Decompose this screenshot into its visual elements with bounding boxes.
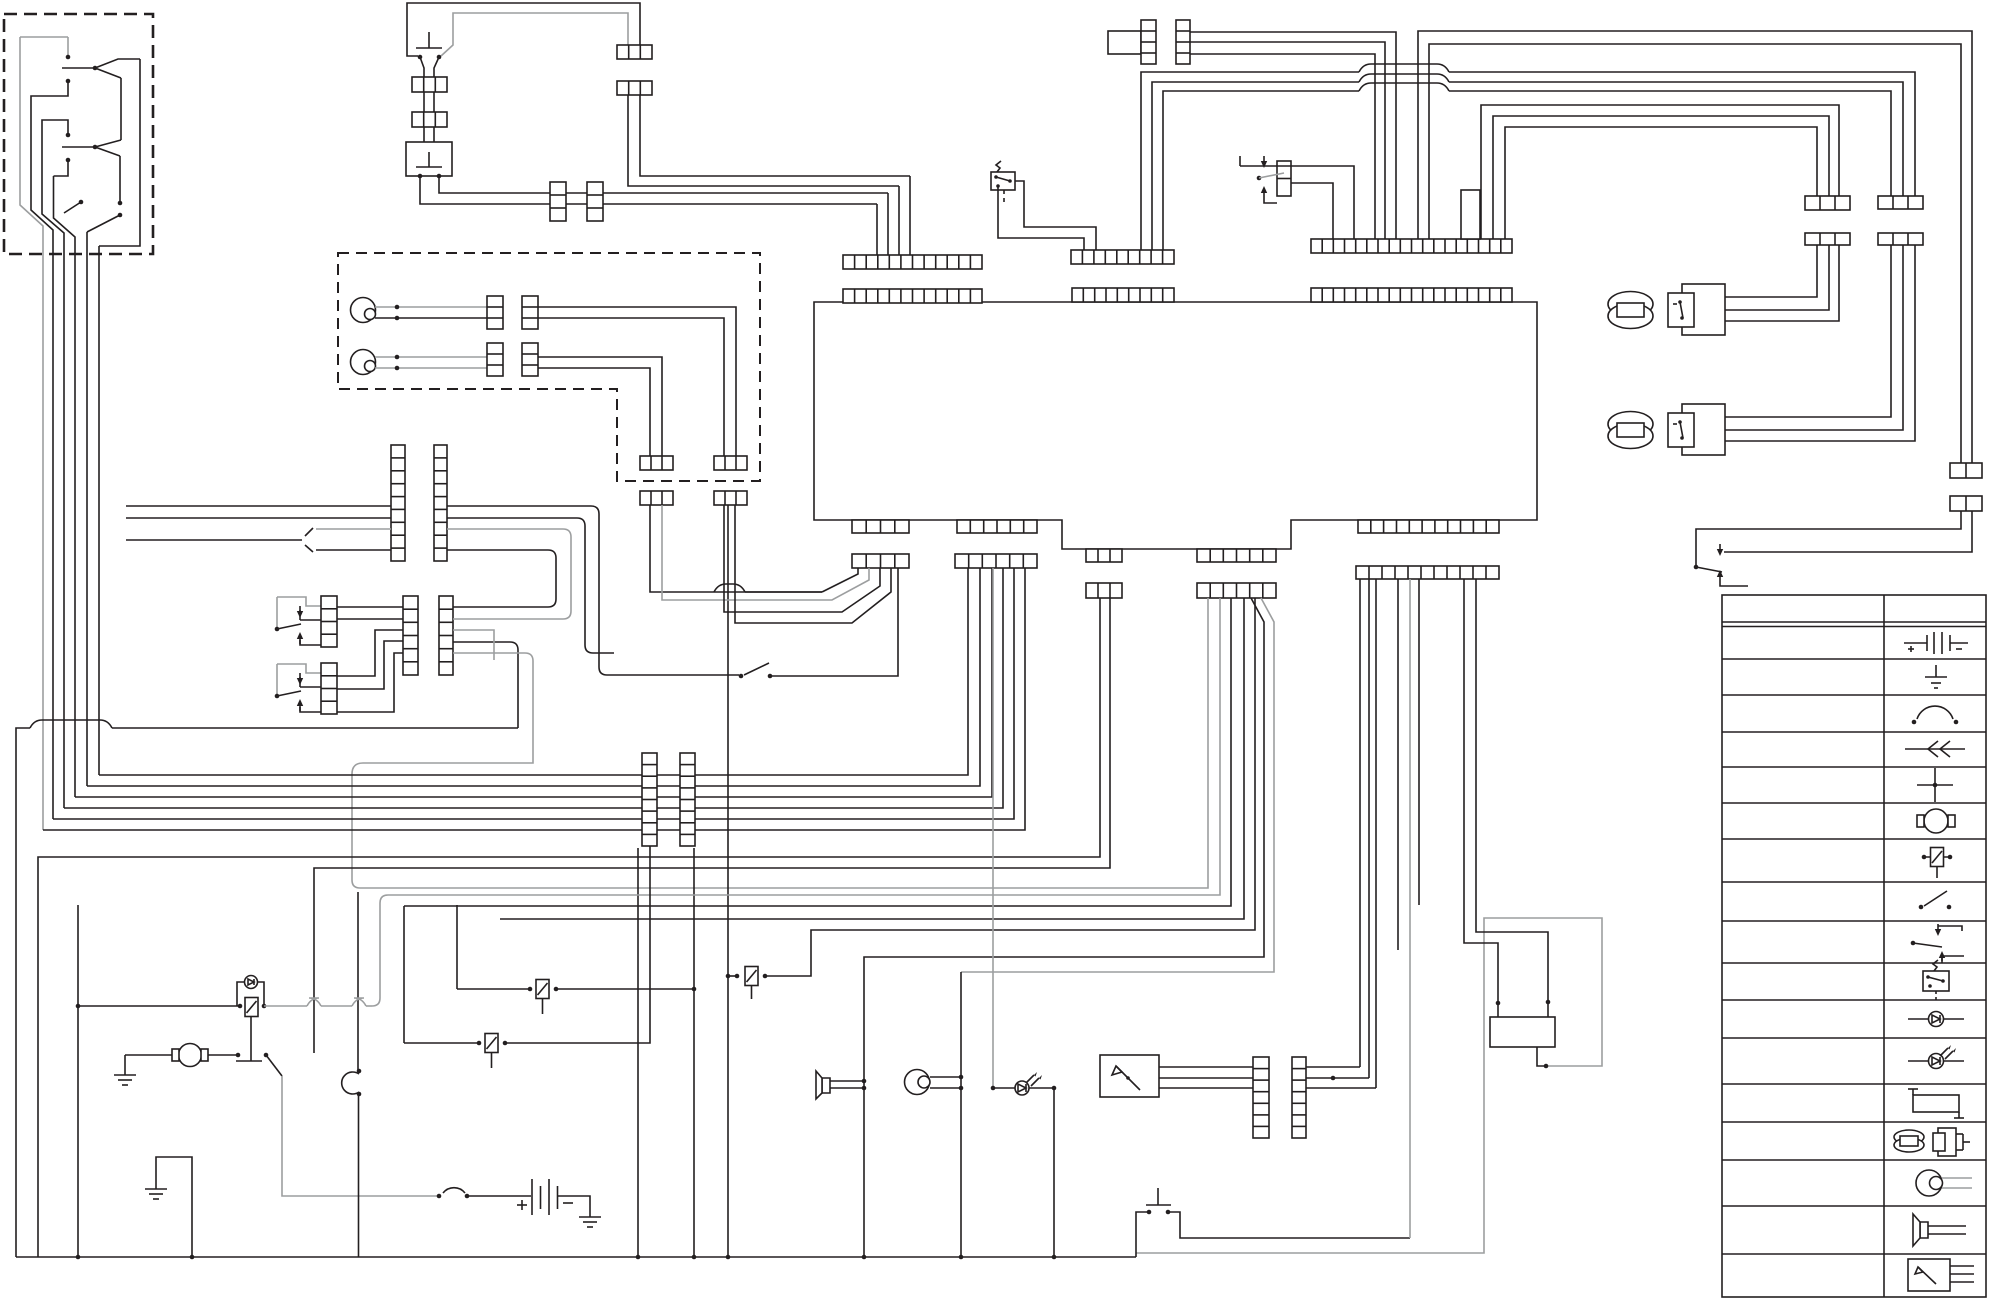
kill switch arm <box>1696 567 1722 572</box>
wire to fuse F2 <box>403 906 405 1043</box>
lamp loop left <box>237 982 244 1006</box>
speaker <box>822 1078 830 1093</box>
wire to ignition connector <box>1152 82 1359 250</box>
harness wire <box>126 505 391 507</box>
switch common wire <box>62 67 95 69</box>
connector N2 <box>680 753 695 846</box>
fuse F4 <box>745 967 758 986</box>
fixed contact bar <box>236 1060 262 1062</box>
harness wire <box>126 517 391 519</box>
connector strip Bc (block) <box>1086 549 1122 562</box>
legend: wire junction symbol <box>1917 768 1953 802</box>
meter wire <box>1159 1066 1253 1068</box>
wire to connector K2 <box>1493 116 1829 239</box>
wire to kill switch <box>1696 511 1961 565</box>
clutch switch wire <box>357 892 359 1071</box>
harness lead 5 <box>86 232 88 786</box>
wire A2 to strip Tc <box>1190 42 1385 239</box>
hook wire upper <box>447 549 548 551</box>
headlight dashed enclosure <box>338 253 760 481</box>
gray unit box top <box>1108 31 1141 54</box>
fuse F4 feed <box>728 975 735 977</box>
bulb 2 wire <box>375 356 487 358</box>
relay wire to strip Tb <box>998 186 1084 250</box>
horn drop wire gray from strip Bd2 <box>961 598 1274 972</box>
lamp drop wire <box>1053 1088 1055 1257</box>
wire A2 to strip Tc <box>1190 32 1396 239</box>
harness bundle wire <box>53 568 1014 819</box>
connector strip Bb2 (harness) <box>955 554 1037 568</box>
ground bracket <box>156 1157 192 1257</box>
harness bundle wire <box>99 568 968 775</box>
legend: ignition coil + spark unit symbol <box>1894 1130 1924 1144</box>
contact stem <box>250 1016 252 1061</box>
connector P4 <box>522 343 538 376</box>
connector strip Tc2 (block) <box>1311 288 1512 302</box>
wire to strip Ba2 <box>772 568 898 676</box>
switch arm lower <box>95 68 121 78</box>
wire to fuse F3 <box>456 905 458 989</box>
connector V2 <box>587 182 603 221</box>
spark unit 1 <box>1682 284 1725 335</box>
battery positive wire <box>467 1195 531 1197</box>
lead <box>423 127 425 142</box>
ground (motor) <box>114 1063 136 1085</box>
connector MA <box>1253 1057 1269 1138</box>
main switch lead to IC <box>420 176 877 204</box>
clutch switch (gap) <box>357 1069 362 1074</box>
legend: horn symbol <box>1916 1170 1942 1196</box>
contact dot <box>79 200 84 205</box>
contact dot <box>66 133 71 138</box>
drop to meter <box>1368 579 1370 1078</box>
legend: fuse symbol <box>1922 856 1952 858</box>
zigzag <box>996 161 1001 172</box>
connector strip Be2 (harness) <box>1356 566 1499 579</box>
wire R2-M <box>337 641 403 689</box>
fuse F2 wire to connector N1 <box>505 846 650 1043</box>
legend: resistor symbol <box>1913 1095 1959 1112</box>
drop to strip <box>898 186 900 255</box>
connector Q2 <box>714 456 747 470</box>
switch 2 arm <box>95 147 120 156</box>
switch junction <box>93 66 98 71</box>
headlight bulb 2 <box>351 350 376 375</box>
legend: ground symbol <box>1925 665 1947 688</box>
connector strip Tb2 (block) <box>1072 288 1174 302</box>
main switch box <box>406 142 452 176</box>
bottom bus <box>16 1256 1136 1258</box>
harness bundle wire <box>64 568 1003 808</box>
connector (switch side) <box>412 77 447 92</box>
harness bundle wire <box>75 568 992 797</box>
contact dot <box>118 201 123 206</box>
right rail of box <box>99 59 140 246</box>
contact dot <box>66 79 71 84</box>
connector L2 <box>434 445 447 561</box>
wire harness lead 1 (gray) <box>20 37 43 830</box>
starter motor <box>179 1044 202 1067</box>
wire Q1b gray <box>662 505 869 600</box>
main switch <box>443 1188 465 1193</box>
connector K1 <box>1878 196 1923 209</box>
switch arm <box>277 691 301 696</box>
battery <box>532 1179 558 1215</box>
headlight wire right <box>538 307 736 456</box>
lower switch arm <box>87 215 120 232</box>
brake switch symbol <box>416 32 442 48</box>
wire to coil 1 <box>1725 245 1817 297</box>
motor lead right <box>208 1054 236 1056</box>
connector strip Tc (harness) <box>1311 239 1512 253</box>
connector R-edge 2 <box>1950 496 1982 511</box>
legend: two-way switch symbol <box>1911 941 1916 946</box>
main switch lead to IC <box>439 176 888 193</box>
legend: meter symbol <box>1908 1259 1950 1291</box>
connector C1 <box>617 45 652 59</box>
headlight wire right <box>538 368 650 456</box>
long wire to strip Bd2 <box>404 598 1231 906</box>
wire to ignition connector <box>1141 72 1359 250</box>
group 1 gray wire <box>277 597 321 606</box>
bulb 1 wire <box>375 306 487 308</box>
lead <box>433 127 435 142</box>
connector R-edge 1 <box>1950 463 1982 478</box>
wire to coil 2 <box>1725 245 1891 417</box>
fuse F2 <box>485 1034 498 1053</box>
shield fork tick <box>305 545 313 552</box>
spark unit 2 <box>1682 404 1725 455</box>
ignition coil 1 <box>1608 292 1653 317</box>
meter wire right <box>1306 1066 1360 1068</box>
shielded pair gray <box>316 528 391 530</box>
connector M2 <box>439 596 453 675</box>
left frame wire <box>16 728 30 1257</box>
side stand switch <box>739 674 744 679</box>
starter relay coil lamp <box>245 976 258 989</box>
connector Q1b <box>640 491 673 505</box>
wire to kill switch arm <box>1724 511 1972 552</box>
lead <box>420 57 424 77</box>
wire C2 to IC <box>628 95 899 186</box>
fuse F4 stub <box>751 986 753 999</box>
legend: connector arc symbol <box>1917 706 1953 719</box>
stub wire <box>1418 579 1420 905</box>
harness lead 6 <box>98 246 100 775</box>
horn drop wire <box>960 972 962 1257</box>
free arm <box>64 202 81 213</box>
shield fork tick <box>305 528 313 536</box>
connector strip Be (block) <box>1358 520 1499 533</box>
link to switch 2 <box>95 140 121 147</box>
battery negative wire <box>558 1196 591 1205</box>
relay wire to strip Tb <box>1015 181 1096 250</box>
bus return wire right <box>1136 918 1602 1253</box>
wire R2-M <box>337 630 403 676</box>
lamp feed gray <box>992 568 994 1088</box>
fuse F4 wire to strip Bd2 <box>765 598 1255 976</box>
wire Q1b <box>650 505 822 592</box>
flasher relay box <box>991 172 1015 190</box>
short gray stub <box>453 630 494 660</box>
connector strip Ta (harness) <box>843 255 982 269</box>
group 2 gray wire <box>277 664 321 673</box>
connector strip Bd2 (harness) <box>1197 583 1276 598</box>
meter wire right <box>1306 1087 1376 1089</box>
legend: relay symbol <box>1923 971 1949 991</box>
left riser <box>77 905 79 1257</box>
motor lead <box>125 1054 172 1056</box>
meter wire <box>1159 1087 1253 1089</box>
legend: indicator bulb symbol <box>1908 1060 1964 1062</box>
wire Q2b <box>735 505 891 623</box>
switch 2 junction <box>93 145 98 150</box>
contact dot <box>66 158 71 163</box>
connector strip Ba2 (harness) <box>852 554 909 568</box>
dimmer wire to strip Tc <box>1240 166 1354 239</box>
ignition coil 2 <box>1608 412 1653 437</box>
wire to coil 1 <box>1725 245 1839 321</box>
drop to meter <box>1375 579 1377 1088</box>
connector P3 <box>487 343 503 376</box>
harness lead 4 <box>54 176 76 797</box>
connector strip Ta2 (block) <box>843 289 982 303</box>
drop to strip <box>909 176 911 255</box>
drop to strip <box>876 204 878 255</box>
legend: battery symbol <box>1904 632 1968 654</box>
switch wire gray top <box>20 36 68 38</box>
lead <box>434 57 439 77</box>
contact dot <box>66 55 71 60</box>
wire to connector K2 <box>1481 105 1839 239</box>
connector A <box>1141 20 1156 64</box>
button leg to bus <box>1136 1212 1147 1257</box>
dimmer switch <box>1277 161 1291 196</box>
stub wire <box>1397 579 1399 950</box>
ground (frame) <box>145 1177 167 1199</box>
hook wire gray <box>447 528 563 530</box>
wire Q2b <box>724 505 880 612</box>
connector MB <box>1292 1057 1306 1138</box>
wire to right edge <box>1429 44 1961 463</box>
legend: plug connector symbol <box>1905 741 1965 757</box>
connector strip Ba (block) <box>852 520 909 533</box>
diag into Ba2 <box>822 568 858 592</box>
drop to strip <box>887 193 889 255</box>
main wire-harness / CDI unit block <box>814 302 1537 549</box>
wire to coil 2 <box>1694 245 1903 430</box>
connector V1 <box>550 182 566 221</box>
link wire <box>120 78 122 140</box>
connector strip Bd (block) <box>1197 549 1276 562</box>
bracket <box>1720 582 1748 586</box>
regulator ground lead <box>1537 1047 1546 1066</box>
dimmer wire to strip Tc <box>1291 183 1333 239</box>
gray wire <box>264 1005 307 1007</box>
wire to regulator <box>1464 579 1498 1017</box>
bracket <box>1264 198 1277 203</box>
meter <box>1100 1055 1159 1097</box>
riser to bus <box>693 848 695 1257</box>
bulb 2 wire <box>375 367 487 369</box>
switch arm to right rail <box>95 59 140 68</box>
headlight wire right <box>538 318 724 456</box>
legend: bulb symbol <box>1908 1018 1964 1020</box>
bulb 1 wire <box>375 317 487 319</box>
wire A2 to strip Tc <box>1190 54 1375 239</box>
switch 2 common <box>62 146 95 148</box>
wire to connector K2 <box>1505 127 1817 239</box>
connector R1 <box>321 596 337 647</box>
meter wire <box>1159 1077 1253 1079</box>
relay moving arm <box>266 1055 282 1076</box>
horn <box>905 1070 930 1095</box>
wire to coil 1 <box>1694 245 1829 310</box>
shielded pair <box>316 549 391 551</box>
stub <box>54 160 69 176</box>
connector strip Bb (block) <box>957 520 1037 533</box>
wire C2 to IC <box>640 95 910 176</box>
lamp loop right <box>258 982 264 1006</box>
wire R1-M <box>337 618 403 620</box>
switch arm <box>744 663 769 675</box>
blank stub on strip Tc <box>1461 190 1480 239</box>
fuse F3 <box>536 980 549 999</box>
legend: motor symbol <box>1924 809 1948 833</box>
handlebar switch dashed enclosure <box>4 14 153 254</box>
outer wire to right edge <box>1418 31 1972 463</box>
connector M1 <box>403 596 418 675</box>
legend: speaker symbol <box>1920 1222 1928 1238</box>
connector C2 <box>617 81 652 95</box>
button wire right <box>1170 1212 1410 1238</box>
connector R2 <box>321 663 337 714</box>
headlight bulb 1 <box>351 298 376 323</box>
connector (harness side) <box>412 112 447 127</box>
wire to regulator <box>1476 579 1548 1017</box>
connector strip Tb (harness) <box>1071 250 1174 264</box>
regulator/rectifier <box>1490 1017 1555 1047</box>
drop to meter <box>1359 579 1361 1067</box>
wire to ignition connector <box>1163 91 1359 250</box>
wire to connector C1 <box>407 3 640 56</box>
meter wire right <box>1306 1077 1369 1079</box>
connector K2 <box>1805 196 1850 210</box>
ground (battery) <box>579 1205 601 1227</box>
contact dot <box>118 213 123 218</box>
harness wire <box>126 539 302 541</box>
starter relay feed wire <box>314 598 1110 1053</box>
wire <box>119 156 121 203</box>
harness bundle wire <box>43 568 1025 830</box>
long riser to bus <box>727 505 729 1257</box>
harness lead 3 <box>42 120 68 808</box>
legend table <box>1722 595 1986 1297</box>
riser to bus <box>637 848 639 1257</box>
long wire y728 <box>112 727 518 729</box>
drop to horn button <box>1409 579 1411 1238</box>
wire R1-M <box>337 606 403 608</box>
connector Q1 <box>640 456 673 470</box>
switch arm <box>277 624 301 629</box>
connector Q2b <box>714 491 747 505</box>
long wire to strip Bd2 <box>500 598 1244 919</box>
dimmer arm <box>1259 173 1284 178</box>
connector P2 <box>522 296 538 329</box>
fuse F3 wire right <box>556 988 694 990</box>
wire to coil 2 <box>1725 245 1915 441</box>
connector N1 <box>642 753 657 846</box>
wire R2-M <box>337 653 403 712</box>
connector K2b <box>1805 233 1850 245</box>
speaker drop wire from strip Bd2 <box>864 598 1264 1257</box>
connector strip Bc2 (harness) <box>1086 583 1122 598</box>
relay wire to main switch <box>282 1076 437 1196</box>
long wire to strip Bc2 <box>38 598 1100 1257</box>
headlight wire right <box>538 357 662 456</box>
connector A2 <box>1176 20 1190 64</box>
connector L1 <box>391 445 405 561</box>
horn button <box>1146 1188 1171 1205</box>
harness lead 2 <box>31 81 68 819</box>
fuse feed wire <box>78 1005 240 1007</box>
legend: switch symbol <box>1919 905 1924 910</box>
connector K1b <box>1878 233 1923 245</box>
connector P1 <box>487 296 503 329</box>
fuse F1 <box>245 998 258 1017</box>
gray wire to connector C1 <box>441 13 628 56</box>
harness bundle wire <box>87 568 980 786</box>
